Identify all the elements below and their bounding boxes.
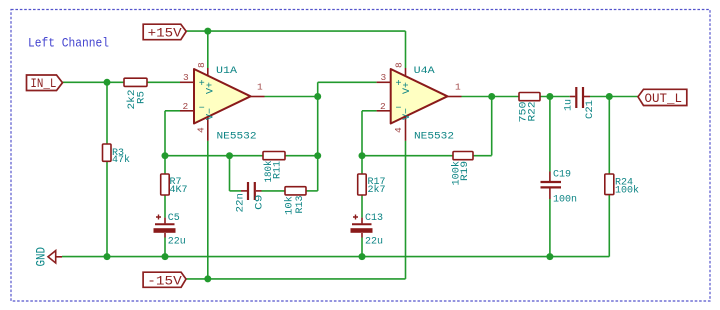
svg-text:R13: R13 [295,196,306,214]
svg-text:22n: 22n [236,193,247,213]
svg-text:U4A: U4A [414,66,435,77]
svg-text:2: 2 [380,101,386,112]
svg-text:R22: R22 [528,102,539,122]
svg-text:1: 1 [455,82,461,93]
svg-text:C5: C5 [168,213,180,224]
svg-text:V−: V− [205,108,216,120]
svg-text:C9: C9 [255,195,266,211]
svg-text:+15V: +15V [148,26,182,41]
svg-text:C21: C21 [585,100,596,119]
svg-text:V+: V+ [402,82,413,94]
svg-text:4: 4 [393,127,404,133]
svg-text:−: − [396,103,402,114]
svg-text:R11: R11 [273,161,284,179]
svg-text:U1A: U1A [216,66,237,77]
svg-text:IN_L: IN_L [30,76,56,91]
svg-text:−: − [199,103,205,114]
svg-text:8: 8 [394,62,405,68]
svg-text:3: 3 [381,72,387,83]
svg-text:+: + [199,79,205,90]
svg-text:1u: 1u [564,99,575,111]
svg-text:V+: V+ [205,82,216,94]
svg-text:-15V: -15V [147,274,182,289]
svg-text:47k: 47k [112,154,130,166]
svg-text:V−: V− [402,108,413,120]
svg-text:OUT_L: OUT_L [645,91,683,106]
svg-text:22u: 22u [365,236,383,247]
svg-text:22u: 22u [168,236,186,247]
svg-text:R5: R5 [137,91,148,104]
svg-text:2: 2 [183,101,189,112]
svg-text:R19: R19 [460,161,471,181]
svg-text:+: + [396,79,402,90]
svg-text:3: 3 [183,72,189,83]
svg-text:1: 1 [257,82,263,93]
svg-text:4K7: 4K7 [170,185,188,196]
svg-text:100k: 100k [615,184,639,196]
svg-text:8: 8 [196,62,207,68]
svg-text:NE5532: NE5532 [414,132,454,143]
svg-text:100n: 100n [553,194,577,205]
svg-text:2k7: 2k7 [368,184,386,196]
svg-text:4: 4 [196,127,207,133]
svg-text:Left Channel: Left Channel [28,36,109,51]
svg-text:NE5532: NE5532 [217,132,257,143]
svg-text:C19: C19 [553,170,571,181]
svg-text:10k: 10k [284,196,296,215]
svg-text:C13: C13 [365,213,383,224]
svg-text:GND: GND [33,247,48,267]
